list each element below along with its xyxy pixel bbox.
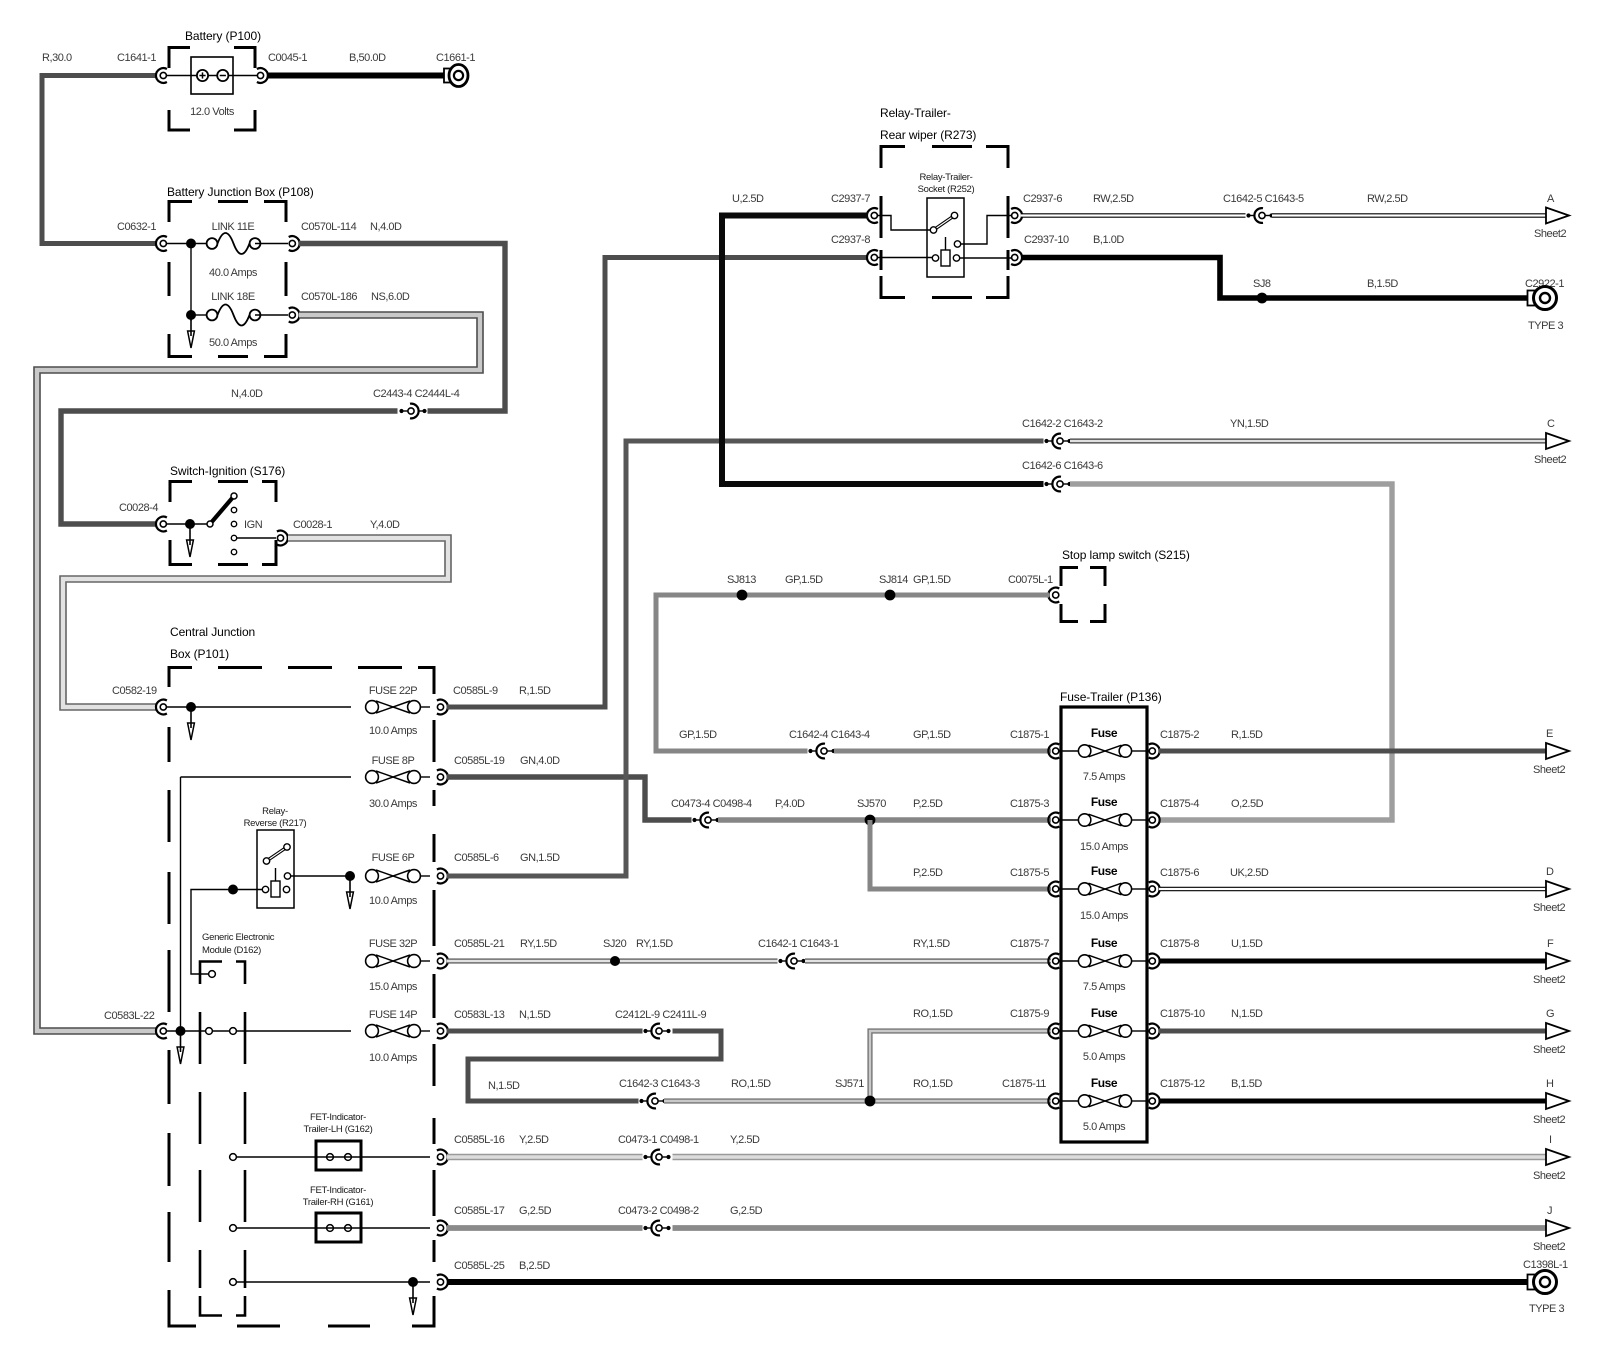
svg-text:B,1.0D: B,1.0D [1093,234,1124,246]
svg-text:C1642-2 C1643-2: C1642-2 C1643-2 [1022,418,1103,430]
svg-text:7.5 Amps: 7.5 Amps [1083,981,1126,993]
wire B,1.5D to sheet H [1159,1099,1546,1104]
svg-text:Generic Electronic: Generic Electronic [202,932,275,943]
sheet arrow F [1546,953,1569,969]
FET LH G162 body [316,1141,361,1170]
wire GN,4.0D [447,777,694,820]
connector C1642-6 C1643-6 [1044,477,1074,492]
svg-text:C0570L-186: C0570L-186 [301,291,357,303]
svg-text:P,2.5D: P,2.5D [913,867,943,879]
svg-text:LINK 11E: LINK 11E [212,221,255,233]
svg-text:7.5 Amps: 7.5 Amps [1083,771,1126,783]
svg-text:SJ571: SJ571 [835,1078,864,1090]
connector C1642-2 C1643-2 [1044,434,1074,449]
connector C0585L-17 [437,1221,448,1236]
relay R252 blade [934,216,955,231]
svg-text:FUSE 22P: FUSE 22P [369,685,417,697]
row F: wire RY,1.5D from CJB [447,959,779,964]
svg-text:C2937-6: C2937-6 [1023,193,1062,205]
svg-text:C1642-4 C1643-4: C1642-4 C1643-4 [789,729,870,741]
svg-text:Battery (P100): Battery (P100) [185,29,261,43]
wire R,1.5D to relay C2937-8 [447,258,868,708]
svg-text:12.0 Volts: 12.0 Volts [190,106,235,118]
svg-text:Y,2.5D: Y,2.5D [519,1134,549,1146]
sheet arrow D [1546,881,1569,897]
svg-text:I: I [1549,1134,1552,1146]
svg-text:C0585L-6: C0585L-6 [454,852,499,864]
svg-text:UK,2.5D: UK,2.5D [1230,867,1269,879]
svg-text:C0585L-21: C0585L-21 [454,938,505,950]
svg-text:R,1.5D: R,1.5D [1231,729,1263,741]
sheet arrow C [1546,433,1569,449]
svg-text:C0585L-16: C0585L-16 [454,1134,505,1146]
battery junction box P108 dashed outline [169,202,286,357]
connector C1875-6 [1149,882,1160,897]
battery plus terminal [197,70,208,81]
svg-text:TYPE 3: TYPE 3 [1529,1303,1565,1315]
relay R217 contact pin [284,873,290,879]
svg-text:Sheet2: Sheet2 [1533,902,1565,914]
relay R252 contact pin [954,241,960,247]
connector C0585L-25 [437,1275,448,1290]
svg-text:E: E [1546,728,1553,740]
svg-text:C0585L-9: C0585L-9 [453,685,498,697]
junction dot P108 top [186,239,196,249]
connector C1875-9 [1048,1024,1059,1039]
svg-text:C1875-3: C1875-3 [1010,798,1049,810]
svg-text:C0028-1: C0028-1 [293,519,332,531]
connector C1875-2 [1149,744,1160,759]
svg-text:C0583L-13: C0583L-13 [454,1009,505,1021]
svg-text:C1875-8: C1875-8 [1160,938,1199,950]
svg-text:Sheet2: Sheet2 [1534,454,1566,466]
svg-text:C1875-6: C1875-6 [1160,867,1199,879]
connector C2412L-9 C2411L-9 [643,1024,673,1039]
wire N,1.5D from FUSE 14P through C2412L-9 [447,1029,644,1034]
relay R217 coil feed to GEM [191,890,263,975]
junction dot row8 [408,1277,418,1287]
battery P100 internal lead [166,75,257,77]
svg-text:FUSE 14P: FUSE 14P [369,1009,417,1021]
fuse D 15A [1059,888,1078,890]
wire B,2.5D to C1398L-1 [447,1279,1528,1285]
svg-text:H: H [1546,1078,1554,1090]
svg-text:LINK 18E: LINK 18E [211,291,255,303]
svg-text:SJ570: SJ570 [857,798,886,810]
wire P,4.0D [718,817,1051,822]
svg-text:Switch-Ignition (S176): Switch-Ignition (S176) [170,464,285,478]
relay R252 coil [945,237,947,250]
connector C0045-1 [257,68,268,83]
svg-text:C2937-7: C2937-7 [831,193,870,205]
svg-text:B,1.5D: B,1.5D [1231,1078,1262,1090]
connector C0473-2 C0498-2 [643,1221,673,1236]
wire Y,4.0D [63,538,448,707]
ignition switch blade [210,496,234,524]
svg-text:GN,1.5D: GN,1.5D [520,852,560,864]
svg-text:Sheet2: Sheet2 [1533,764,1565,776]
svg-text:FUSE 32P: FUSE 32P [369,938,417,950]
FET RH G161 body [316,1213,361,1242]
connector C0585L-21 [437,954,448,969]
wire U,2.5D [722,216,1044,485]
svg-text:SJ20: SJ20 [603,938,627,950]
CJB row3 lead from relay [291,875,351,877]
battery P100 dashed outline [169,48,255,131]
svg-text:GP,1.5D: GP,1.5D [913,729,951,741]
CJB row2 FUSE 8P feed [180,777,182,1031]
connector C0585L-16 [437,1150,448,1165]
connector C0473-1 C0498-1 [643,1150,673,1165]
svg-text:F: F [1547,938,1554,950]
wire GP,1.5D stop lamp loop [656,595,1049,751]
central junction box P101 dashed outline [169,668,434,1327]
ground below row5 [177,1035,184,1064]
svg-text:Sheet2: Sheet2 [1533,1044,1565,1056]
connector C1875-7 [1048,954,1059,969]
connector C0585L-9 [437,700,448,715]
connector C1875-11 [1048,1094,1059,1109]
svg-text:Relay-Trailer-: Relay-Trailer- [880,106,951,120]
CJB row5 lead [166,1030,351,1032]
ignition contacts [231,507,236,512]
CJB row6 lead [236,1156,430,1158]
svg-text:C0582-19: C0582-19 [112,685,157,697]
svg-text:C1875-7: C1875-7 [1010,938,1049,950]
svg-text:C1875-10: C1875-10 [1160,1008,1205,1020]
wire RO,1.5D to SJ571 and C1875-11 [664,1098,1051,1103]
svg-text:Socket (R252): Socket (R252) [918,184,975,195]
svg-text:U,2.5D: U,2.5D [732,193,764,205]
connector C0075L-1 [1048,588,1059,603]
svg-text:D: D [1546,866,1554,878]
splice SJ8 [1257,293,1268,304]
svg-text:Reverse (R217): Reverse (R217) [244,818,307,829]
svg-text:15.0 Amps: 15.0 Amps [1080,910,1129,922]
connector C0585L-6 [437,869,448,884]
wire RW,2.5D to sheet A [1272,213,1546,218]
connector C1875-10 [1149,1024,1160,1039]
fuse FUSE 8P [366,771,421,784]
svg-text:5.0 Amps: 5.0 Amps [1083,1121,1126,1133]
wire UK,2.5D to sheet D [1159,887,1546,892]
CJB row7 lead [236,1227,430,1229]
svg-text:C0585L-19: C0585L-19 [454,755,505,767]
connector C2937-10 [1011,250,1022,265]
wire O,2.5D from C1643-6 to fuse C1875-4 [1070,484,1392,820]
junction dot row5 [176,1026,186,1036]
svg-text:N,4.0D: N,4.0D [231,388,263,400]
sheet arrow G [1546,1023,1569,1039]
connector C1875-1 [1048,744,1059,759]
svg-text:C0028-4: C0028-4 [119,502,158,514]
svg-text:A: A [1547,193,1555,205]
sheet arrow H [1546,1093,1569,1109]
GEM pin row6 [230,1154,237,1161]
connector C2443-4 C2444L-4 [398,404,428,419]
svg-text:C0075L-1: C0075L-1 [1008,574,1053,586]
svg-text:Fuse: Fuse [1091,1076,1118,1090]
splice SJ20 [610,956,620,966]
svg-text:G: G [1546,1008,1554,1020]
svg-text:C1875-12: C1875-12 [1160,1078,1205,1090]
svg-text:RO,1.5D: RO,1.5D [913,1008,953,1020]
wire NS,6.0D from LINK 18E [37,315,480,1031]
ignition feed line [166,523,207,525]
splice SJ813 [737,590,748,601]
connector C1642-4 C1643-4 [808,744,838,759]
connector C0585L-19 [437,770,448,785]
connector C0028-1 [277,531,288,546]
svg-text:15.0 Amps: 15.0 Amps [369,981,418,993]
GEM pin row7 [230,1225,237,1232]
svg-text:C1661-1: C1661-1 [436,52,475,64]
svg-text:50.0 Amps: 50.0 Amps [209,337,258,349]
svg-text:Fuse: Fuse [1091,864,1118,878]
row I: wire Y,2.5D [447,1154,644,1161]
svg-text:GP,1.5D: GP,1.5D [913,574,951,586]
GEM pin row5 right [230,1028,237,1035]
fuse FUSE 6P [366,870,421,883]
svg-text:C0473-4 C0498-4: C0473-4 C0498-4 [671,798,752,810]
svg-text:C1875-11: C1875-11 [1002,1078,1046,1090]
wire YN,1.5D to sheet C [1070,439,1546,444]
svg-text:O,2.5D: O,2.5D [1231,798,1264,810]
svg-text:Relay-: Relay- [262,806,288,817]
svg-text:J: J [1547,1205,1552,1217]
svg-text:FUSE 6P: FUSE 6P [372,852,415,864]
svg-text:C2412L-9 C2411L-9: C2412L-9 C2411L-9 [615,1009,707,1021]
svg-text:IGN: IGN [244,519,263,531]
connector C0582-19 [156,700,167,715]
svg-text:C0570L-114: C0570L-114 [301,221,357,233]
svg-text:RY,1.5D: RY,1.5D [520,938,557,950]
wire N,4.0D from LINK 11E [61,244,505,525]
svg-text:Fuse: Fuse [1091,726,1118,740]
wire R,30.0 battery feed [42,76,157,244]
GEM pin top [209,971,216,978]
ring terminal C2922-1 [1528,287,1557,310]
svg-text:GP,1.5D: GP,1.5D [679,729,717,741]
svg-text:C0473-2 C0498-2: C0473-2 C0498-2 [618,1205,699,1217]
svg-text:C1875-9: C1875-9 [1010,1008,1049,1020]
wire bus inside P108 [166,243,206,245]
svg-text:C1875-5: C1875-5 [1010,867,1049,879]
connector C2937-7 [867,208,878,223]
svg-text:Fuse-Trailer (P136): Fuse-Trailer (P136) [1060,690,1162,704]
connector C1642-1 C1643-1 [778,954,808,969]
svg-text:N,1.5D: N,1.5D [1231,1008,1263,1020]
svg-text:C0585L-17: C0585L-17 [454,1205,505,1217]
ring terminal C1661-1 [444,65,468,87]
connector C0583L-13 [437,1024,448,1039]
svg-text:SJ814: SJ814 [879,574,908,586]
svg-text:C0632-1: C0632-1 [117,221,156,233]
wire B,1.0D / B,1.5D to C2922-1 [1021,258,1528,299]
connector C0570L-114 [289,236,300,251]
svg-text:Sheet2: Sheet2 [1533,1170,1565,1182]
wire N,1.5D to sheet G [1159,1029,1546,1034]
connector C0570L-186 [289,308,300,323]
sheet arrow A [1546,208,1569,224]
svg-text:YN,1.5D: YN,1.5D [1230,418,1269,430]
svg-text:NS,6.0D: NS,6.0D [371,291,410,303]
svg-text:C0585L-25: C0585L-25 [454,1260,505,1272]
svg-text:C1642-6 C1643-6: C1642-6 C1643-6 [1022,460,1103,472]
splice SJ571 [865,1096,876,1107]
svg-text:C0045-1: C0045-1 [268,52,307,64]
wire GN,1.5D up to C1642-2 [447,441,1044,876]
GEM D162 dashed outline [200,962,245,1316]
wire U,1.5D to sheet F [1159,959,1546,964]
ground below row1 [188,711,195,740]
fuse H 5A [1059,1100,1078,1102]
wire RO,1.5D branch up to C1875-9 [870,1031,1051,1101]
svg-text:RW,2.5D: RW,2.5D [1367,193,1408,205]
relay-reverse R217 body [257,830,294,908]
fuse O 15A [1059,819,1078,821]
connector C1642-5 C1643-5 [1246,208,1276,223]
CJB row1 lead [166,706,351,708]
battery minus terminal [217,70,228,81]
svg-text:C0583L-22: C0583L-22 [104,1010,155,1022]
svg-text:Fuse: Fuse [1091,1006,1118,1020]
svg-text:Y,2.5D: Y,2.5D [730,1134,760,1146]
relay R217 coil [275,868,277,881]
relay R217 blade [267,847,288,861]
svg-text:Relay-Trailer-: Relay-Trailer- [920,172,973,183]
svg-text:P,4.0D: P,4.0D [775,798,805,810]
svg-text:FET-Indicator-: FET-Indicator- [310,1185,366,1196]
connector C1641-1 [156,68,167,83]
junction dot row1 [186,702,196,712]
svg-text:C2443-4 C2444L-4: C2443-4 C2444L-4 [373,388,460,400]
fuse-trailer P136 body [1061,707,1147,1142]
svg-text:Fuse: Fuse [1091,795,1118,809]
svg-text:C1875-2: C1875-2 [1160,729,1199,741]
connector C2937-8 [867,250,878,265]
fuse FUSE 22P [366,701,421,714]
svg-text:Y,4.0D: Y,4.0D [370,519,400,531]
row D: wire P,2.5D branch [870,820,1051,889]
wire GP,1.5D to C1875-1 [834,749,1051,754]
svg-text:Battery Junction Box (P108): Battery Junction Box (P108) [167,185,314,199]
svg-text:B,2.5D: B,2.5D [519,1260,550,1272]
svg-text:C2937-10: C2937-10 [1024,234,1069,246]
svg-text:C0473-1 C0498-1: C0473-1 C0498-1 [618,1134,699,1146]
svg-text:Sheet2: Sheet2 [1533,1241,1565,1253]
relay R273 dashed outline [881,147,1008,298]
wire B,50.0D [267,73,444,79]
IGN contact lead [237,537,276,539]
fuse FUSE 32P [366,955,421,968]
svg-text:C2937-8: C2937-8 [831,234,870,246]
svg-text:C1642-5 C1643-5: C1642-5 C1643-5 [1223,193,1304,205]
svg-text:B,1.5D: B,1.5D [1367,278,1398,290]
svg-text:40.0 Amps: 40.0 Amps [209,267,258,279]
connector C1875-4 [1149,813,1160,828]
svg-text:10.0 Amps: 10.0 Amps [369,895,418,907]
svg-text:FET-Indicator-: FET-Indicator- [310,1112,366,1123]
junction dot S176 [185,519,195,529]
svg-text:RO,1.5D: RO,1.5D [913,1078,953,1090]
svg-text:SJ8: SJ8 [1253,278,1271,290]
svg-text:Sheet2: Sheet2 [1533,1114,1565,1126]
connector C1642-3 C1643-3 [639,1094,669,1109]
splice SJ570 [865,815,876,826]
svg-text:Sheet2: Sheet2 [1533,974,1565,986]
svg-text:R,30.0: R,30.0 [42,52,72,64]
fusible link LINK 18E [207,305,261,326]
svg-text:U,1.5D: U,1.5D [1231,938,1263,950]
CJB row8 lead [236,1281,430,1283]
svg-text:Trailer-RH (G161): Trailer-RH (G161) [303,1197,374,1208]
svg-text:C1642-3 C1643-3: C1642-3 C1643-3 [619,1078,700,1090]
sheet arrow I [1546,1149,1569,1165]
wire R,1.5D to sheet E [1159,749,1546,754]
connector C0028-4 [156,517,167,532]
svg-text:G,2.5D: G,2.5D [519,1205,552,1217]
svg-text:B,50.0D: B,50.0D [349,52,386,64]
connector C1875-3 [1048,813,1059,828]
svg-text:10.0 Amps: 10.0 Amps [369,725,418,737]
svg-text:TYPE 3: TYPE 3 [1528,320,1564,332]
svg-text:C1875-4: C1875-4 [1160,798,1199,810]
svg-text:Trailer-LH (G162): Trailer-LH (G162) [304,1124,373,1135]
svg-text:5.0 Amps: 5.0 Amps [1083,1051,1126,1063]
svg-text:Sheet2: Sheet2 [1534,228,1566,240]
fusible link LINK 11E [207,233,261,254]
svg-text:30.0 Amps: 30.0 Amps [369,798,418,810]
connector C1875-8 [1149,954,1160,969]
ground below P108 [188,319,195,348]
connector C1875-5 [1048,882,1059,897]
GEM pin row8 [230,1279,237,1286]
fuse F 7.5A [1059,960,1078,962]
wire RY,1.5D to C1875-7 [805,959,1051,964]
svg-text:FUSE 8P: FUSE 8P [372,755,415,767]
svg-text:SJ813: SJ813 [727,574,756,586]
svg-text:Box (P101): Box (P101) [170,647,229,661]
connector C0583L-22 [156,1024,167,1039]
row J: wire G,2.5D [447,1225,644,1231]
svg-text:P,2.5D: P,2.5D [913,798,943,810]
svg-text:RY,1.5D: RY,1.5D [913,938,950,950]
svg-text:C1875-1: C1875-1 [1010,729,1049,741]
battery P100 body [191,57,233,94]
svg-text:RO,1.5D: RO,1.5D [731,1078,771,1090]
svg-text:C1642-1 C1643-1: C1642-1 C1643-1 [758,938,839,950]
ground below row3 [347,880,354,909]
svg-text:C1641-1: C1641-1 [117,52,156,64]
R252 internal wiring [877,216,930,231]
stop lamp switch S215 dashed outline [1061,568,1105,622]
svg-text:N,1.5D: N,1.5D [488,1080,520,1092]
svg-text:C: C [1547,418,1555,430]
switch-ignition S176 dashed outline [170,482,276,565]
relay socket R252 body [927,198,964,277]
svg-text:Rear wiper (R273): Rear wiper (R273) [880,128,976,142]
fuse E 7.5A [1059,750,1078,752]
splice SJ814 [885,590,896,601]
svg-text:10.0 Amps: 10.0 Amps [369,1052,418,1064]
svg-text:Fuse: Fuse [1091,936,1118,950]
svg-text:R,1.5D: R,1.5D [519,685,551,697]
svg-text:N,4.0D: N,4.0D [370,221,402,233]
svg-text:GP,1.5D: GP,1.5D [785,574,823,586]
svg-text:15.0 Amps: 15.0 Amps [1080,841,1129,853]
connector C0473-4 C0498-4 [692,813,722,828]
